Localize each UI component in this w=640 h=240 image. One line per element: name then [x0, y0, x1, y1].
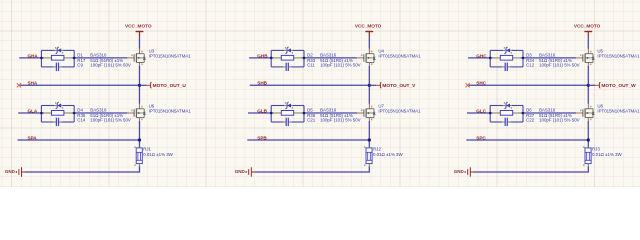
wire U5 source to U8 drain (net MOTO_OUT_W): [587, 66, 589, 104]
power port VCC_MOTO (phase U): [125, 24, 152, 38]
svg-text:VCC_MOTO: VCC_MOTO: [125, 24, 152, 29]
svg-text:BAS316: BAS316: [90, 52, 107, 57]
resistor R36 (51&#937; (51R0) &#177;1%): [274, 111, 302, 116]
resistor R17 (51&#937; (51R0) &#177;1%): [44, 55, 72, 60]
junction right of R17: [73, 57, 76, 60]
wire RC network frame R33: [271, 50, 304, 67]
transistor U5 (IPT015N10N5ATMA1): [576, 49, 640, 67]
junction node SPA: [138, 138, 141, 141]
svg-text:C14: C14: [77, 118, 86, 123]
junction left of R35: [40, 112, 43, 115]
no-connect marker on SHA: [17, 83, 21, 87]
svg-text:IPT015N10N5ATMA1: IPT015N10N5ATMA1: [378, 109, 421, 114]
junction node MOTO_OUT_V: [368, 84, 371, 87]
capacitor C14 (100pF (101) 5% 50V): [53, 118, 61, 126]
wire net SPA: [18, 139, 140, 141]
value labels D5 R36 C21: [307, 108, 361, 123]
junction left of R37: [489, 112, 492, 115]
wire VCC to U4 drain: [368, 37, 370, 49]
wire U3 source to U6 drain (net MOTO_OUT_U): [139, 66, 141, 104]
junction node SPB: [368, 138, 371, 141]
svg-text:100pF (101) 5% 50V: 100pF (101) 5% 50V: [90, 118, 131, 123]
wire net GHB: [249, 57, 271, 59]
resistor R33 (51&#937; (51R0) &#177;1%): [274, 55, 302, 60]
svg-text:GND: GND: [5, 169, 16, 174]
resistor RJ3 (0.01&#937; shunt): [583, 146, 622, 166]
svg-text:SHA: SHA: [28, 81, 38, 86]
wire RC net to U8 gate: [523, 112, 576, 114]
wire RC network frame R35: [41, 106, 74, 123]
wire net SHB: [250, 84, 370, 86]
svg-text:SPA: SPA: [28, 135, 38, 140]
svg-text:IPT015N10N5ATMA1: IPT015N10N5ATMA1: [149, 109, 192, 114]
transistor U3 (IPT015N10N5ATMA1): [127, 49, 191, 67]
wire net GLC: [467, 112, 490, 114]
wire net GHC: [468, 57, 490, 59]
svg-text:RJ2: RJ2: [373, 147, 381, 152]
svg-text:IPT015N10N5ATMA1: IPT015N10N5ATMA1: [597, 54, 640, 59]
svg-text:VCC_MOTO: VCC_MOTO: [355, 24, 382, 29]
transistor U8 (IPT015N10N5ATMA1): [576, 104, 640, 122]
svg-text:GLB: GLB: [257, 108, 267, 113]
svg-text:RJ1: RJ1: [143, 147, 151, 152]
capacitor C11 (100pF (101) 5% 50V): [283, 63, 291, 71]
ground GND (phase U): [5, 167, 25, 176]
wire net GLB: [248, 112, 271, 114]
harness entry MOTO_OUT_V: [369, 83, 416, 90]
svg-text:MOTO_OUT_W: MOTO_OUT_W: [601, 83, 636, 89]
svg-text:D5: D5: [307, 108, 313, 113]
wire shunt RJ1 to GND: [25, 166, 140, 172]
junction node MOTO_OUT_U: [138, 84, 141, 87]
harness entry MOTO_OUT_W: [588, 83, 636, 90]
diode D4 (BAS316): [54, 102, 63, 109]
wire VCC to U3 drain: [139, 37, 141, 49]
wire U4 source to U7 drain (net MOTO_OUT_V): [368, 66, 370, 104]
svg-text:IPT015N10N5ATMA1: IPT015N10N5ATMA1: [378, 54, 421, 59]
svg-text:SHC: SHC: [476, 81, 486, 86]
svg-text:GND: GND: [454, 169, 465, 174]
junction left of R33: [270, 57, 273, 60]
resistor RJ1 (0.01&#937; shunt): [134, 146, 173, 166]
svg-text:BAS316: BAS316: [90, 108, 107, 113]
wire RC net to U4 gate: [304, 57, 357, 59]
junction left of R36: [270, 112, 273, 115]
wire shunt RJ2 to GND: [255, 166, 369, 172]
svg-text:BAS316: BAS316: [539, 108, 556, 113]
svg-text:SPB: SPB: [257, 135, 267, 140]
wire VCC to U5 drain: [587, 37, 589, 49]
junction right of R36: [303, 112, 306, 115]
svg-text:C12: C12: [526, 62, 535, 67]
wire shunt RJ3 to GND: [474, 166, 589, 172]
diode D5 (BAS316): [284, 102, 293, 109]
resistor R35 (51&#937; (51R0) &#177;1%): [44, 111, 72, 116]
svg-text:D2: D2: [307, 52, 313, 57]
svg-text:D4: D4: [77, 108, 83, 113]
diode D6 (BAS316): [503, 102, 512, 109]
junction left of R17: [40, 57, 43, 60]
svg-text:MOTO_OUT_U: MOTO_OUT_U: [153, 83, 187, 89]
junction right of R33: [303, 57, 306, 60]
value labels D6 R37 C22: [526, 108, 580, 123]
no-connect marker on SHC: [466, 83, 470, 87]
svg-text:100pF (101) 5% 50V: 100pF (101) 5% 50V: [539, 62, 580, 67]
power port VCC_MOTO (phase V): [355, 24, 382, 38]
wire U6 source to shunt RJ1: [139, 121, 141, 147]
power port VCC_MOTO (phase W): [574, 24, 601, 38]
wire RC net to U5 gate: [523, 57, 576, 59]
svg-text:IPT015N10N5ATMA1: IPT015N10N5ATMA1: [149, 54, 192, 59]
svg-text:GHC: GHC: [476, 53, 487, 58]
resistor R34 (51&#937; (51R0) &#177;1%): [493, 55, 521, 60]
junction node SPC: [587, 138, 590, 141]
wire RC net to U6 gate: [74, 112, 127, 114]
svg-text:100pF (101) 5% 50V: 100pF (101) 5% 50V: [320, 62, 361, 67]
svg-text:BAS316: BAS316: [320, 52, 337, 57]
svg-text:RJ3: RJ3: [592, 147, 600, 152]
wire net SHC: [469, 84, 589, 86]
transistor U6 (IPT015N10N5ATMA1): [127, 104, 191, 122]
junction right of R35: [73, 112, 76, 115]
svg-text:C22: C22: [526, 118, 535, 123]
wire U8 source to shunt RJ3: [587, 121, 589, 147]
svg-text:0.01Ω ±1% 3W: 0.01Ω ±1% 3W: [143, 152, 173, 157]
svg-text:GHA: GHA: [28, 53, 39, 58]
wire RC network frame R36: [271, 106, 304, 123]
svg-text:GLA: GLA: [28, 108, 38, 113]
diode D2 (BAS316): [284, 47, 293, 54]
svg-text:D1: D1: [77, 52, 83, 57]
junction right of R34: [522, 57, 525, 60]
svg-text:IPT015N10N5ATMA1: IPT015N10N5ATMA1: [597, 109, 640, 114]
wire RC network frame R37: [490, 106, 523, 123]
junction right of R37: [522, 112, 525, 115]
svg-text:100pF (101) 5% 50V: 100pF (101) 5% 50V: [90, 62, 131, 67]
svg-text:BAS316: BAS316: [320, 108, 337, 113]
svg-text:C9: C9: [77, 62, 83, 67]
wire RC net to U7 gate: [304, 112, 357, 114]
wire RC net to U3 gate: [74, 57, 127, 59]
value labels D1 R17 C9: [77, 52, 131, 67]
harness entry MOTO_OUT_U: [140, 83, 187, 90]
wire net GLA: [18, 112, 41, 114]
value labels D4 R35 C14: [77, 108, 131, 123]
svg-text:GHB: GHB: [257, 53, 268, 58]
svg-text:100pF (101) 5% 50V: 100pF (101) 5% 50V: [320, 118, 361, 123]
capacitor C9 (100pF (101) 5% 50V): [53, 63, 61, 71]
resistor R37 (51&#937; (51R0) &#177;1%): [493, 111, 521, 116]
svg-text:GLC: GLC: [476, 108, 486, 113]
svg-text:MOTO_OUT_V: MOTO_OUT_V: [382, 83, 416, 89]
svg-text:SHB: SHB: [257, 81, 267, 86]
svg-text:C21: C21: [307, 118, 316, 123]
wire net SPC: [466, 139, 588, 141]
ground GND (phase W): [454, 167, 474, 176]
svg-text:D3: D3: [526, 52, 532, 57]
svg-text:GND: GND: [235, 169, 246, 174]
capacitor C12 (100pF (101) 5% 50V): [502, 63, 510, 71]
value labels D2 R33 C11: [307, 52, 361, 67]
svg-text:C11: C11: [307, 62, 315, 67]
svg-text:0.01Ω ±1% 3W: 0.01Ω ±1% 3W: [592, 152, 622, 157]
wire RC network frame R17: [41, 50, 74, 67]
svg-text:D6: D6: [526, 108, 532, 113]
svg-text:SPC: SPC: [476, 135, 486, 140]
wire net GHA: [19, 57, 41, 59]
wire RC network frame R34: [490, 50, 523, 67]
capacitor C21 (100pF (101) 5% 50V): [283, 118, 291, 126]
diode D3 (BAS316): [503, 47, 512, 54]
svg-text:BAS316: BAS316: [539, 52, 556, 57]
capacitor C22 (100pF (101) 5% 50V): [502, 118, 510, 126]
svg-text:0.01Ω ±1% 3W: 0.01Ω ±1% 3W: [373, 152, 403, 157]
junction left of R34: [489, 57, 492, 60]
wire U7 source to shunt RJ2: [368, 121, 370, 147]
svg-text:VCC_MOTO: VCC_MOTO: [574, 24, 601, 29]
junction node MOTO_OUT_W: [587, 84, 590, 87]
svg-text:100pF (101) 5% 50V: 100pF (101) 5% 50V: [539, 118, 580, 123]
wire net SHA: [20, 84, 140, 86]
value labels D3 R34 C12: [526, 52, 580, 67]
ground GND (phase V): [235, 167, 255, 176]
diode D1 (BAS316): [54, 47, 63, 54]
resistor RJ2 (0.01&#937; shunt): [364, 146, 403, 166]
transistor U7 (IPT015N10N5ATMA1): [357, 104, 421, 122]
wire net SPB: [247, 139, 369, 141]
transistor U4 (IPT015N10N5ATMA1): [357, 49, 421, 67]
